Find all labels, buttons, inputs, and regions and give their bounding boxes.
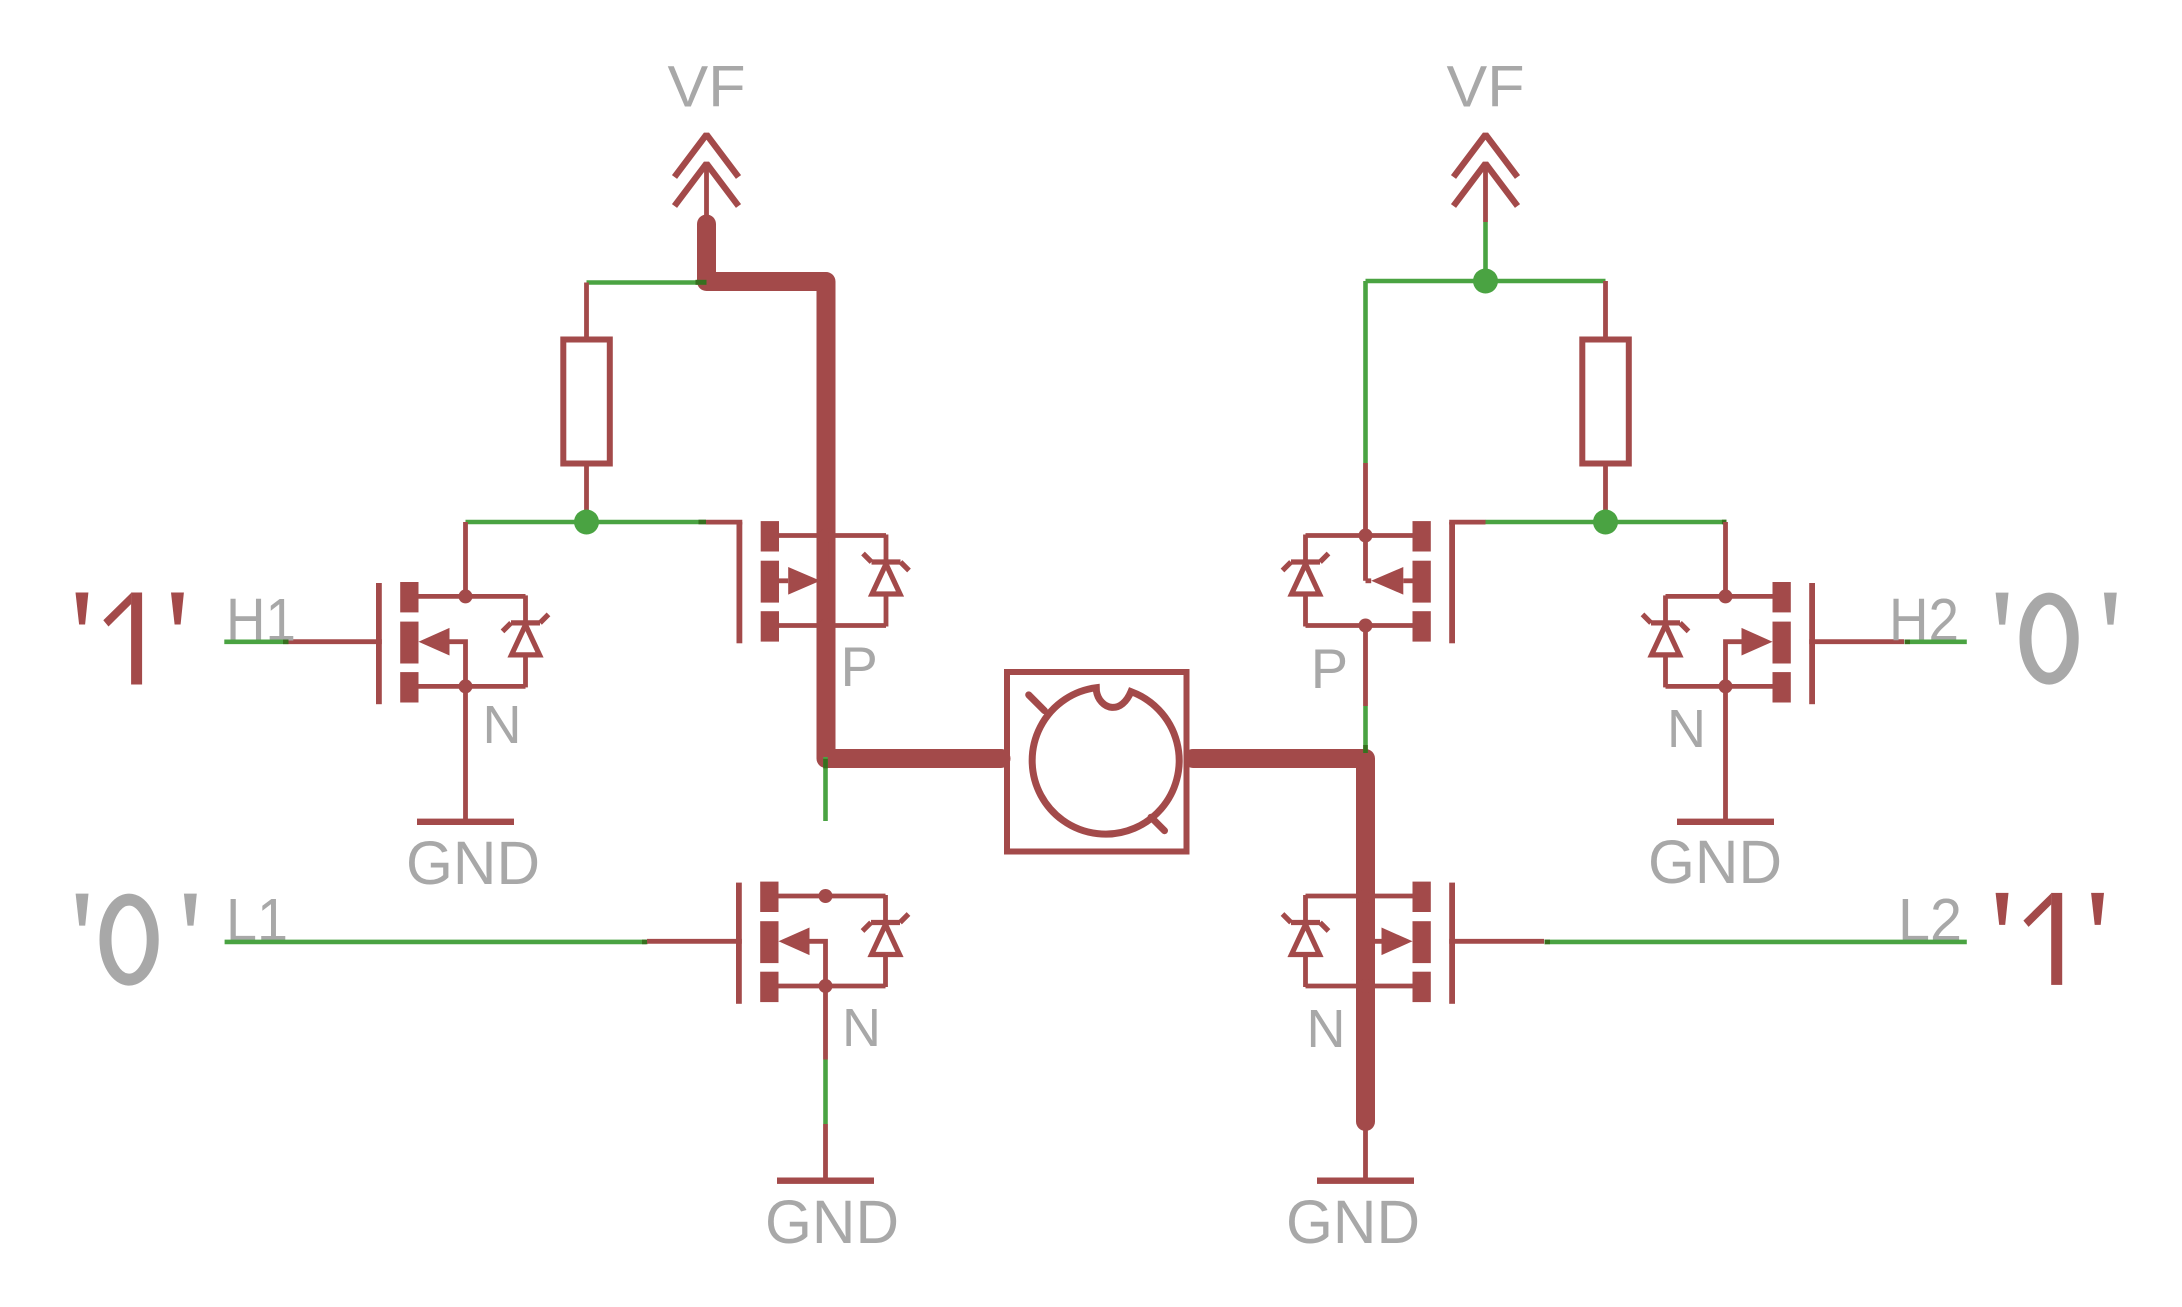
wire net VF2 horizontal (green) — [1366, 279, 1606, 284]
thick wire motor right to GND3 (highlighted net) — [1193, 759, 1366, 1122]
junction overlap dark green — [1363, 745, 1368, 753]
transistor L1 (N-MOSFET low side left) — [647, 882, 909, 1004]
wire H1 source to ground — [463, 686, 468, 819]
svg-text:GND: GND — [1286, 1188, 1420, 1256]
thick wire VF to motor left (highlighted net) — [707, 224, 1002, 759]
svg-text:VF: VF — [1447, 55, 1525, 120]
wire net L1 gate (green) — [225, 940, 647, 945]
ground symbol GND2 — [777, 1178, 874, 1184]
junction overlap tip dark green — [1722, 520, 1727, 525]
wire P2 source pin — [1363, 626, 1368, 707]
transistor H2 (N-MOSFET right) — [1643, 582, 1905, 704]
wire net L2 gate (green) — [1545, 940, 1967, 945]
power symbol VF1 — [675, 135, 739, 207]
svg-text:VF: VF — [668, 55, 746, 120]
svg-text:GND: GND — [1648, 828, 1782, 896]
label '0' input L1 — [76, 894, 197, 980]
ground symbol GND1 — [417, 819, 514, 825]
svg-text:P: P — [1311, 637, 1348, 700]
wire GND2 pin — [823, 1124, 828, 1179]
resistor R2 — [1582, 340, 1629, 464]
wire R2 bottom lead — [1603, 462, 1608, 522]
wire net H2 gate (green) — [1905, 639, 1967, 644]
junction overlap dark green — [696, 280, 707, 285]
wire L2/GND3 stub — [1363, 1130, 1368, 1179]
transistor P2 (P-MOSFET right) — [1283, 521, 1486, 643]
node R1/H1-drain/P1-gate junction (green) — [574, 510, 599, 535]
wire VF2 stem — [1483, 168, 1488, 222]
svg-text:N: N — [842, 998, 881, 1058]
ground symbol GND3 — [1317, 1178, 1414, 1184]
wire H2 drain pin — [1723, 522, 1728, 596]
svg-text:N: N — [1667, 699, 1706, 759]
svg-text:P: P — [841, 635, 878, 698]
label '1' input L2 — [1996, 893, 2104, 985]
junction tip dark green — [283, 640, 289, 645]
wire R1 top lead — [584, 283, 589, 341]
transistor L2 (N-MOSFET low side right) — [1283, 882, 1545, 1004]
wire net R2 to H2 drain and P2 gate (green) — [1485, 520, 1726, 525]
junction tip dark green — [1905, 640, 1911, 645]
svg-text:N: N — [1307, 999, 1346, 1059]
wire VF1 stem — [704, 168, 709, 216]
wire net L1 source to GND2 (green) — [823, 1060, 828, 1125]
wire R2 top lead — [1603, 281, 1608, 340]
label '1' input H1 — [76, 593, 184, 685]
node R2/H2-drain/P2-gate junction (green) — [1593, 510, 1618, 535]
wire H1 drain pin — [463, 522, 468, 596]
wire H2 source to ground — [1723, 686, 1728, 819]
svg-text:GND: GND — [765, 1188, 899, 1256]
resistor R1 — [563, 340, 610, 464]
transistor H1 (N-MOSFET) — [287, 582, 549, 704]
label '0' input H2 — [1996, 593, 2117, 679]
transistor P1 (P-MOSFET left) — [706, 521, 909, 643]
svg-text:N: N — [483, 695, 522, 755]
wire net VF2 to P2 drain (green) — [1363, 281, 1368, 463]
wire net motor-left to L1 drain (green) — [823, 757, 828, 821]
wire L1 source pin — [823, 986, 828, 1060]
junction overlap tip dark green — [699, 520, 707, 525]
node VF2 junction (green) — [1473, 269, 1498, 294]
junction tip dark green — [1545, 940, 1551, 945]
wire net H1 gate (green) — [224, 639, 287, 644]
wire net VF1 to resistor R1 top (green) — [587, 280, 701, 285]
wire R1 bottom lead — [584, 462, 589, 522]
junction overlap dark green — [823, 759, 828, 769]
wire net R1 to H1 drain and P1 gate (green) — [466, 520, 707, 525]
ground symbol GND4 — [1677, 819, 1774, 825]
motor M (DC motor in square frame) — [1007, 672, 1187, 852]
wire net P2 source to motor-right (green) — [1363, 706, 1368, 753]
wire net VF2 vertical (green) — [1483, 222, 1488, 281]
power symbol VF2 — [1454, 135, 1518, 207]
junction tip dark green — [642, 940, 648, 945]
wire P2 drain pin — [1363, 463, 1368, 536]
svg-text:GND: GND — [406, 829, 540, 897]
